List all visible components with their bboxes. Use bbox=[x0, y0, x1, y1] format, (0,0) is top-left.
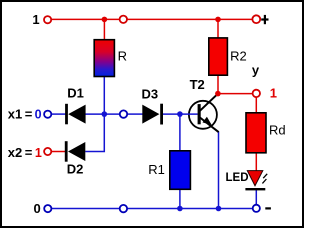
wire top rail bbox=[51, 18, 252, 20]
wire D1 to circle bbox=[86, 113, 120, 115]
svg-text:D1: D1 bbox=[67, 86, 84, 101]
terminal circle bottom mid bbox=[120, 205, 127, 212]
terminal circle x1 bbox=[44, 111, 51, 118]
junction dot R1 bottom bbox=[177, 206, 183, 212]
wire x2 input stub bbox=[51, 151, 65, 153]
wire base to R1 bbox=[179, 114, 181, 151]
diode D1 bbox=[65, 104, 86, 125]
terminal circle y out bbox=[253, 90, 260, 97]
svg-text:Rd: Rd bbox=[269, 123, 286, 138]
wire R2 bottom bbox=[217, 75, 219, 94]
resistor R1 bbox=[170, 151, 191, 190]
wire bottom rail bbox=[51, 208, 252, 210]
svg-text:R1: R1 bbox=[148, 162, 165, 177]
terminal circle top left bbox=[44, 16, 51, 23]
LED triangle bbox=[247, 171, 262, 186]
svg-text:D3: D3 bbox=[142, 86, 159, 101]
resistor Rd bbox=[246, 113, 266, 153]
wire LED to minus bbox=[255, 190, 257, 205]
wire output y bbox=[218, 93, 253, 95]
resistor R (gradient) bbox=[94, 40, 114, 77]
svg-text:D2: D2 bbox=[67, 162, 84, 177]
transistor T2 circle bbox=[189, 101, 217, 129]
label plus bbox=[261, 18, 268, 20]
transistor T2 emitter arrow bbox=[203, 117, 212, 125]
svg-text:0: 0 bbox=[35, 107, 42, 121]
svg-text:x1: x1 bbox=[8, 106, 22, 121]
junction dot top R bbox=[102, 17, 108, 23]
diode D3 bbox=[142, 104, 163, 125]
svg-text:1: 1 bbox=[35, 146, 42, 160]
svg-text:R: R bbox=[118, 49, 127, 64]
svg-text:1: 1 bbox=[270, 85, 277, 100]
svg-text:y: y bbox=[252, 62, 260, 77]
resistor R2 bbox=[209, 38, 228, 75]
junction dot collector node bbox=[215, 91, 221, 97]
svg-text:1: 1 bbox=[32, 12, 39, 27]
label minus bbox=[265, 207, 271, 209]
transistor T2 collector line bbox=[200, 94, 218, 111]
transistor T2 base bar bbox=[198, 104, 201, 124]
wire R1 to rail bbox=[179, 189, 181, 209]
junction dot top R2 bbox=[215, 17, 221, 23]
terminal circle plus bbox=[252, 15, 260, 23]
wire R bottom bbox=[103, 76, 105, 114]
svg-text:T2: T2 bbox=[190, 77, 205, 92]
wire Rd to LED bbox=[255, 153, 257, 171]
transistor T2 emitter line bbox=[200, 118, 219, 133]
wire D2 corner up bbox=[85, 114, 104, 151]
wire Rd top bbox=[255, 97, 257, 113]
junction dot diode node bbox=[102, 111, 108, 117]
junction dot emitter bottom bbox=[216, 206, 222, 212]
svg-text:=: = bbox=[25, 106, 33, 121]
terminal circle bottom left bbox=[44, 205, 51, 212]
terminal circle x1 right bbox=[120, 110, 127, 117]
wire D3 to base bbox=[163, 113, 198, 115]
svg-text:LED: LED bbox=[226, 172, 249, 184]
svg-text:=: = bbox=[25, 145, 33, 160]
wire R top bbox=[103, 19, 105, 40]
wire emitter drop bbox=[218, 132, 220, 209]
terminal circle x2 bbox=[44, 148, 51, 155]
LED cathode bar bbox=[245, 188, 265, 190]
svg-text:R2: R2 bbox=[230, 49, 247, 64]
junction dot base node bbox=[177, 111, 183, 117]
wire circle to D3 bbox=[127, 113, 142, 115]
terminal circle minus bbox=[253, 205, 260, 212]
diode D2 bbox=[65, 141, 86, 162]
terminal circle top mid bbox=[120, 16, 127, 23]
svg-text:x2: x2 bbox=[8, 145, 22, 160]
wire R2 top bbox=[217, 19, 219, 38]
svg-text:0: 0 bbox=[34, 201, 41, 216]
wire x1 input stub bbox=[51, 113, 66, 115]
LED light marks bbox=[263, 174, 267, 178]
